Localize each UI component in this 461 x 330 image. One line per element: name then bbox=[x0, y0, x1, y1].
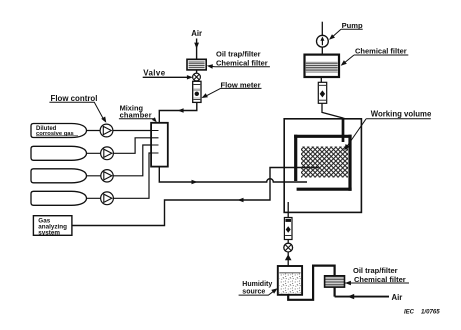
svg-text:Humidity: Humidity bbox=[242, 281, 272, 288]
svg-text:Oil trap/filter: Oil trap/filter bbox=[216, 49, 261, 58]
svg-text:Air: Air bbox=[392, 293, 403, 302]
svg-text:Flow control: Flow control bbox=[51, 94, 98, 103]
svg-text:Chemical filter: Chemical filter bbox=[216, 58, 268, 67]
svg-text:Air: Air bbox=[191, 29, 202, 38]
svg-text:Pump: Pump bbox=[342, 21, 363, 30]
svg-text:Chemical filter: Chemical filter bbox=[355, 47, 407, 56]
svg-text:Working volume: Working volume bbox=[371, 110, 432, 119]
svg-text:Chemical filter: Chemical filter bbox=[354, 275, 406, 284]
svg-text:source: source bbox=[242, 289, 265, 296]
svg-text:chamber: chamber bbox=[120, 111, 152, 120]
svg-text:system: system bbox=[38, 230, 60, 237]
svg-text:Valve: Valve bbox=[143, 68, 165, 77]
svg-text:Flow meter: Flow meter bbox=[221, 80, 261, 89]
svg-text:IEC: IEC bbox=[404, 309, 415, 315]
svg-text:1/0765: 1/0765 bbox=[421, 308, 440, 315]
